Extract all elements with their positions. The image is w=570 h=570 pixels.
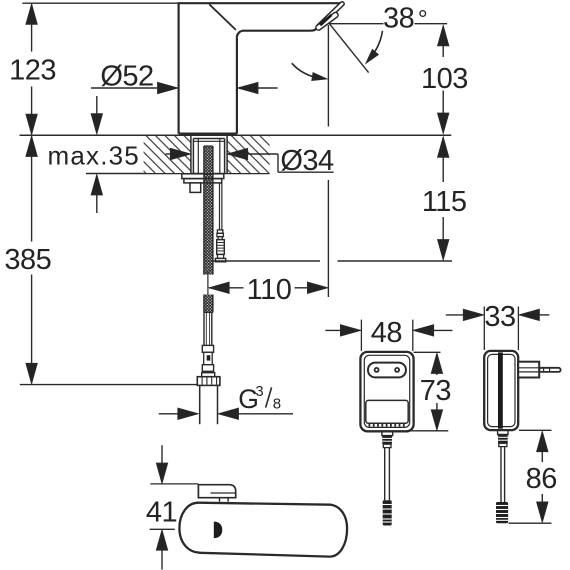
adapter side body [484,351,518,430]
svg-text:°: ° [418,6,428,34]
svg-text:73: 73 [420,375,451,407]
mounting flange [182,174,224,193]
dimension 41 [150,445,199,569]
svg-text:8: 8 [273,395,281,412]
counter bottom line [86,173,270,175]
dimension max35 [91,96,102,213]
dimension 110 [209,282,327,293]
gland front [382,431,393,435]
dimension 48 [325,320,452,351]
svg-text:123: 123 [9,55,56,87]
dimension 123 [26,4,37,134]
adapter side stripe [498,352,503,428]
connector front [383,500,392,525]
svg-text:103: 103 [421,63,468,95]
svg-text:110: 110 [247,274,292,306]
text G3/8 [238,384,281,414]
faucet shank [193,139,224,174]
counter hatch right [227,136,270,173]
svg-text:38: 38 [383,3,414,35]
extension line at connector level [214,260,321,262]
svg-text:41: 41 [146,497,177,529]
counter hatch left [144,136,191,173]
faucet body outline [178,3,341,134]
cable front [384,448,386,501]
nut neck [204,371,206,372]
socket holes [375,368,379,372]
385 bottom extension line [20,384,197,386]
sensor cable [219,183,221,230]
dimension G3/8 [159,408,293,419]
detail view spout body [179,503,347,557]
top reference line [22,2,179,4]
spout underside [237,28,317,37]
hose collar 2 [202,365,213,372]
38deg diagonal line [329,23,369,72]
svg-text:max.35: max.35 [48,141,140,171]
adapter front body [360,352,413,431]
hose end tube [204,312,212,345]
dimension diameter 52 [91,82,278,93]
counter top line [20,134,452,136]
svg-text:3: 3 [256,384,264,400]
svg-text:86: 86 [526,463,557,495]
adapter front inner outline [364,355,409,427]
plug pin [539,368,560,372]
adapter side inner outline [488,354,515,426]
dimension diameter 34 leader [166,148,334,172]
label panel [366,400,408,423]
mounting hole edges [190,136,192,174]
dimension 73 [410,352,448,431]
G3/8 nut [197,373,220,386]
vertical extension line for 110/115 [327,180,329,297]
38deg arc arrow [368,31,383,61]
dimension 86 [509,430,552,523]
hose collar 1 [202,345,213,352]
cable side [500,447,502,502]
spout aerator inner band [315,11,339,31]
center line below connector [207,272,209,310]
svg-text:Ø52: Ø52 [100,60,153,92]
dimension 385 [26,136,37,383]
supply pipe [199,385,201,424]
dimension 33 [446,307,550,351]
spout aerator black slot [319,14,333,26]
detail view lever [198,485,235,502]
quick connector [204,352,213,364]
spout aerator outer band [316,1,345,29]
cable connector [215,230,225,262]
braided hose lower segment [204,295,213,313]
svg-text:385: 385 [4,244,51,276]
euro socket [368,363,406,378]
svg-text:Ø34: Ø34 [280,145,334,177]
dimension 103 [438,26,449,133]
plug support [518,362,539,378]
braided hose upper segment [204,146,213,275]
faucet chamfer edge [209,4,236,30]
38deg vertical reference line [327,25,329,127]
38deg baseline [329,23,384,25]
svg-text:115: 115 [422,186,467,218]
svg-text:33: 33 [484,301,515,333]
svg-text:48: 48 [371,317,402,349]
detail sensor window [214,522,223,539]
dimension 115 [438,137,449,259]
sensor flow arrow [292,63,322,78]
connector side [496,502,508,523]
gland side [498,430,508,434]
